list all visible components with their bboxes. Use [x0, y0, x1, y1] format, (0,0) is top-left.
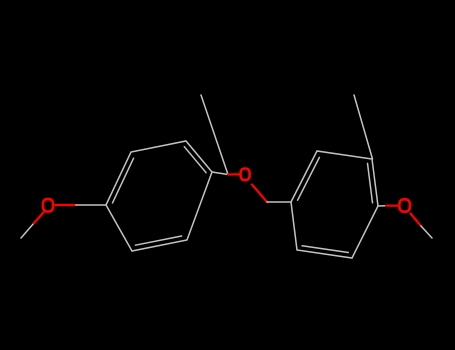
left benzylic substituent diagonal: [201, 95, 228, 175]
left methoxy O-ring bond (white half): [76, 204, 106, 206]
left methoxy CH3 bond (white half): [21, 223, 34, 238]
left ring double bond BR-BL: [135, 236, 181, 245]
bond right ring R to right O (red half): [386, 205, 398, 207]
bond right ring R to right O (white half): [378, 205, 386, 207]
right ring double bond TR-R: [368, 163, 373, 202]
left methoxy O-ring bond (red half): [56, 204, 77, 206]
bond left ring R to central O (white half): [212, 172, 228, 175]
left ring double bond L-TL: [113, 158, 134, 203]
bond CH2 to right ring (white): [267, 201, 291, 203]
left benzene ring: [106, 141, 212, 251]
left O glyph: [43, 199, 53, 211]
right methyl bond on ring TR vertex: [354, 95, 373, 159]
central O glyph: [241, 169, 250, 181]
right O glyph: [399, 199, 409, 211]
bond central O to CH2 (red half): [252, 185, 267, 203]
right methoxy CH3 bond (white half): [421, 226, 432, 238]
right ring double bond BR-BL: [302, 246, 348, 253]
left ring double bond inner line TR-R: [184, 147, 206, 173]
right ring double bond L-TL: [298, 157, 320, 200]
left methoxy CH3 bond (red half): [34, 213, 44, 224]
right methoxy CH3 bond (red half): [411, 214, 422, 227]
bond left ring R to central O (red half): [228, 173, 239, 175]
right benzene ring: [291, 151, 378, 258]
